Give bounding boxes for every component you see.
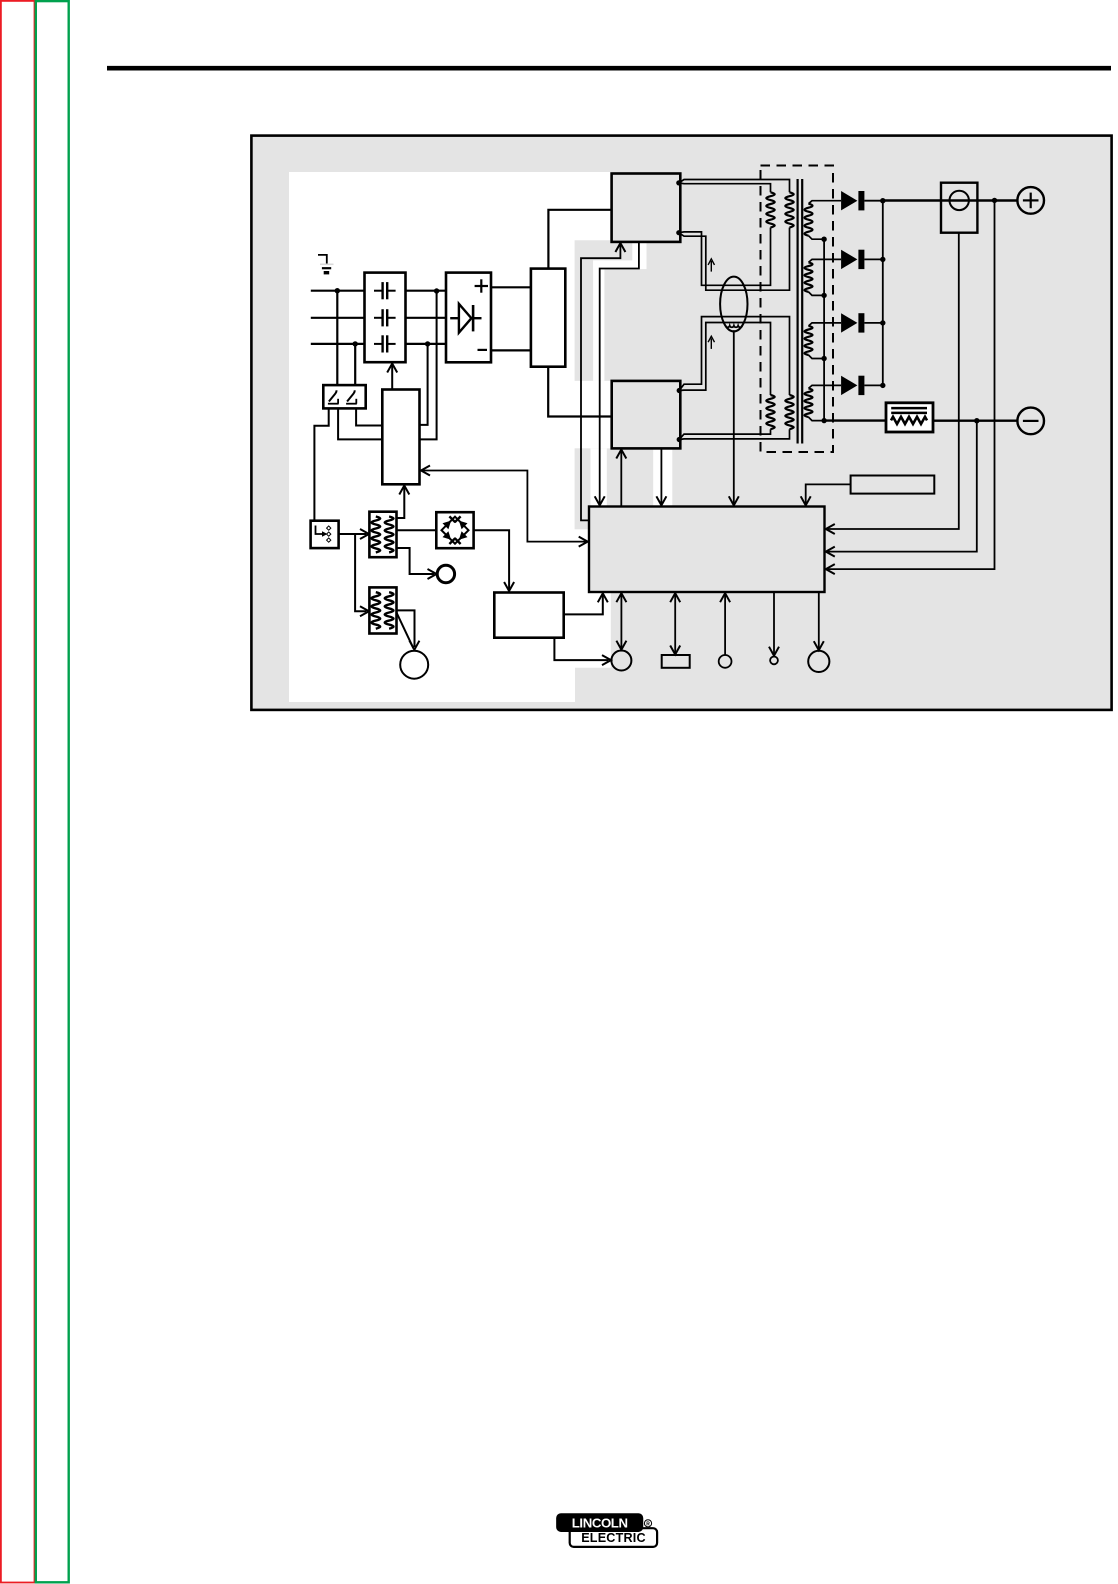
wire feeder receptacle [611, 651, 631, 671]
node on positive output [992, 198, 997, 203]
IGBT inverter module 1 [612, 174, 681, 242]
svg-text:R: R [646, 1522, 650, 1528]
negative output terminal [1017, 408, 1044, 435]
wire switch to aux transformer B [356, 408, 382, 425]
wire switch board to IGBT module 2 [548, 367, 612, 417]
output diode cathode bus [880, 198, 885, 388]
svg-text:ELECTRIC: ELECTRIC [581, 1531, 646, 1545]
node on L1 [335, 288, 340, 293]
auxiliary transformer board [382, 390, 419, 485]
positive voltage sense wire [826, 200, 995, 574]
wire rectifier - output [491, 349, 531, 351]
transformer secondary windings [805, 201, 842, 421]
input filter capacitor bank [365, 273, 406, 363]
wire board2 to fan motor (b) [397, 613, 420, 650]
node between caps and rectifier (top) [434, 288, 439, 293]
wire aux transformer to control board [420, 466, 588, 547]
wire gas solenoid to output receptacle [554, 638, 611, 665]
wire switch board to IGBT module 1 [548, 210, 611, 269]
wire board1 to aux transformer [397, 486, 410, 519]
wire aux transformer to capacitor bank [387, 364, 397, 390]
switch board [531, 269, 565, 367]
encoder knob [719, 655, 732, 668]
status LED [770, 657, 778, 665]
IGBT inverter module 2 [612, 381, 681, 449]
output choke [886, 403, 933, 432]
wire feeder receptacle link [616, 592, 626, 650]
wire L1 to switch [336, 291, 338, 386]
negative output wire [933, 418, 1017, 423]
control transformer board 1 [369, 512, 396, 558]
gas solenoid box [494, 593, 563, 638]
output rectifier diodes D1-D4 [841, 191, 883, 395]
white inner area [289, 172, 612, 702]
secondary center-tap bus [821, 237, 826, 424]
wire IGBT1 to control board [595, 242, 639, 505]
main transformer (dashed boundary) [761, 166, 834, 453]
wire switch to remote box [314, 408, 328, 521]
wire current sensor to control board [729, 330, 739, 505]
fan motor [400, 651, 428, 679]
wire board1 to fan rectifier [397, 529, 437, 531]
wire center tap to choke [824, 419, 886, 421]
wire board2 to fan motor (a) [397, 610, 415, 647]
current sense transformer [720, 277, 747, 332]
positive output terminal [1017, 187, 1044, 214]
wire remote to fan board [355, 534, 369, 616]
Lincoln Electric logo [557, 1514, 657, 1547]
transformer primary winding pair 2 [677, 317, 794, 443]
node on L3 [353, 341, 358, 346]
wire control board to IGBT2 gate [616, 450, 626, 507]
control board [589, 507, 825, 593]
positive output wire [883, 199, 1018, 201]
remote control receptacle [311, 521, 339, 548]
wire feedback box to control board [801, 484, 851, 505]
wire node to aux transformer (right edge lower) [420, 291, 437, 439]
current shunt / hall sensor [941, 183, 977, 233]
transformer primary winding pair 1 [676, 180, 794, 291]
svg-text:LINCOLN: LINCOLN [572, 1515, 628, 1530]
header rule [107, 66, 1111, 71]
wire caps to rectifier (3 lines) [406, 291, 447, 344]
wire board1 to thermostat [397, 548, 437, 579]
node between caps and rectifier (bottom) [425, 341, 430, 346]
gray band segment left of control board [575, 448, 588, 529]
wire control board to IGBT1 gate [581, 243, 625, 520]
current feedback wire [826, 233, 959, 534]
transformer core [798, 179, 803, 444]
wire switch to aux transformer A [338, 408, 382, 439]
power switch (input contactor) [323, 385, 365, 408]
input rectifier bridge [446, 273, 491, 363]
red page border bar [1, 1, 35, 1583]
chassis ground [318, 255, 334, 273]
input line L3 [311, 343, 365, 345]
green page border bar [36, 1, 69, 1582]
control transformer board 2 [369, 587, 396, 633]
fan motor rectifier [436, 512, 473, 548]
input line L2 [311, 317, 365, 319]
display panel [662, 655, 690, 668]
white wire channels [591, 242, 673, 507]
wire gas solenoid to control board [564, 593, 608, 614]
wire remote to wire feeder board [339, 529, 369, 539]
negative voltage sense wire [826, 421, 977, 557]
thermostat [437, 565, 454, 582]
feedback interface box [851, 476, 935, 494]
encoder link [720, 592, 730, 655]
output control knob [808, 651, 829, 672]
LED link [769, 592, 779, 656]
display link [670, 592, 680, 655]
wire rectifier + output [491, 286, 531, 288]
wire L3 to switch [354, 344, 356, 386]
wire node to aux transformer (right edge upper) [420, 344, 428, 425]
diagram background box [251, 136, 1111, 710]
wire fan rectifier to gas solenoid [474, 530, 514, 591]
input line L1 [311, 290, 365, 292]
output control knob link [814, 592, 824, 650]
wire IGBT2 to control board [656, 448, 666, 505]
